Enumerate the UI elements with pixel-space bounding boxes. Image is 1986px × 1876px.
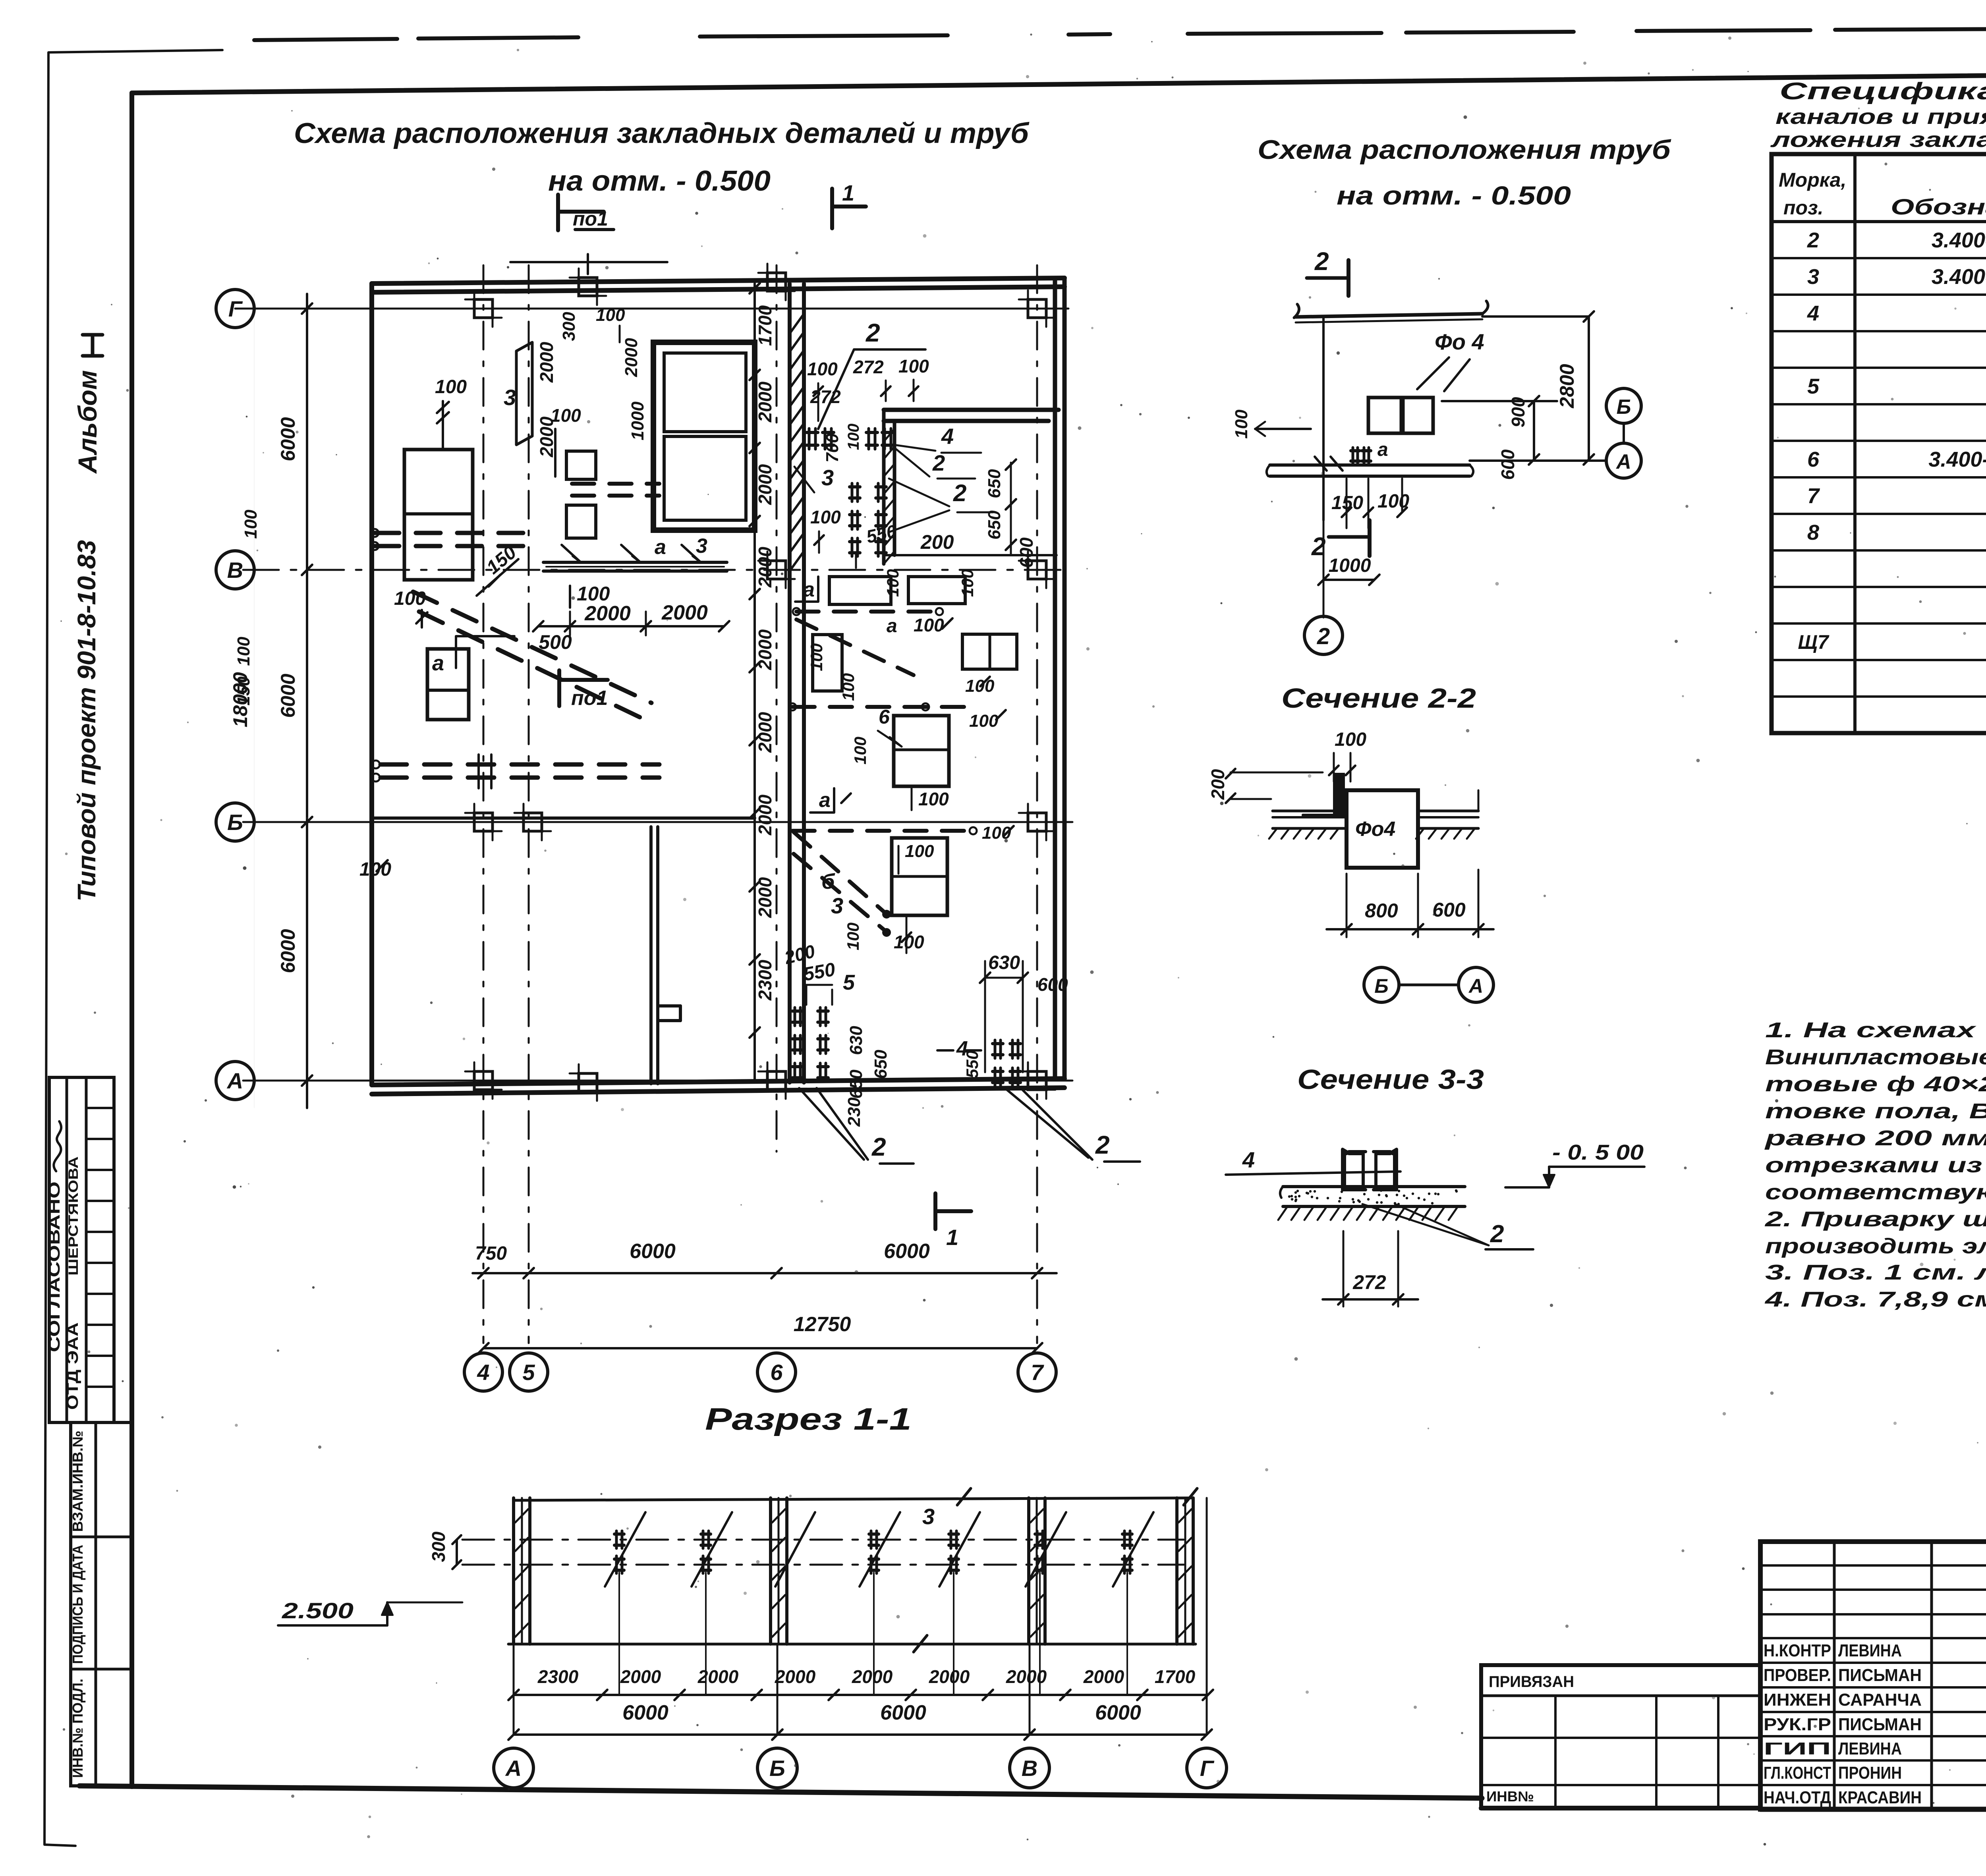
svg-text:100: 100 [845,424,862,450]
svg-text:2300: 2300 [537,1666,579,1687]
svg-text:2: 2 [1314,247,1329,276]
svg-text:6000: 6000 [884,1240,930,1263]
section 2-2 bubbles B A [1364,967,1399,1002]
svg-text:3: 3 [922,1504,935,1529]
axis bubble V [216,551,254,589]
section mark 1 bottom [933,1193,937,1229]
equipment rects row below axis V [829,577,891,604]
window double rectangle top middle [653,342,755,530]
bolt clusters bottom right [993,1042,1003,1045]
dashed pipe run below axis V [796,610,939,614]
svg-text:100: 100 [810,507,841,527]
razrez axis bubble V [1010,1748,1049,1788]
svg-text:Б: Б [769,1756,785,1781]
svg-text:соответствующего диаметра.: соответствующего диаметра. [1765,1180,1986,1204]
svg-text:6000: 6000 [630,1240,676,1263]
svg-text:Щ7: Щ7 [1798,631,1829,653]
section 3-3 slab stipple [1341,1191,1343,1193]
svg-text:2000: 2000 [775,1666,816,1687]
svg-text:3: 3 [1807,265,1819,289]
section mark 1 top [830,189,834,228]
svg-text:4: 4 [1807,301,1819,325]
svg-text:ИНВ.№ ПОДЛ.: ИНВ.№ ПОДЛ. [70,1679,86,1778]
svg-text:5: 5 [522,1360,535,1385]
svg-text:6000: 6000 [277,674,299,718]
plan interior wall vertical bottom-left room [649,827,653,1084]
svg-text:100: 100 [807,643,826,671]
svg-text:200: 200 [1207,769,1228,800]
svg-text:каналов и приямков в осях 6-7;: каналов и приямков в осях 6-7; В-Г и к с… [1775,105,1986,129]
svg-text:2000: 2000 [755,794,775,836]
spec table outer border [1772,154,1986,733]
svg-text:6000: 6000 [880,1701,926,1724]
svg-text:550: 550 [963,1050,981,1078]
plan horizontal axis line G [235,308,1068,310]
margin stamp table SOGLASOVANO [49,1077,114,1422]
svg-text:a: a [432,651,444,675]
plan horizontal axis line B [243,821,1072,823]
svg-text:Винипластовые ф 32 × 1.8, инд: Винипластовые ф 32 × 1.8, индексом „ Б” … [1765,1045,1986,1069]
svg-text:А: А [1615,450,1631,473]
plan top wall [372,278,1064,284]
svg-text:100: 100 [969,711,999,731]
plan vertical axis line 5 [528,265,530,1343]
svg-text:100: 100 [435,376,467,398]
svg-text:2800: 2800 [1556,364,1578,408]
pipe scheme bubble A [1606,443,1641,478]
svg-text:ПРОВЕР.: ПРОВЕР. [1764,1666,1831,1685]
svg-text:Г: Г [1200,1756,1215,1781]
razrez axis bubble B [757,1748,797,1788]
svg-text:Б: Б [227,810,243,835]
plan bottom axis bubble 4 [464,1353,502,1391]
svg-text:Б: Б [1617,396,1631,419]
arrows into diagonal pipes [882,910,891,919]
svg-text:1000: 1000 [628,401,647,440]
svg-text:ПРОНИН: ПРОНИН [1838,1763,1902,1783]
spec table header row line [1772,220,1986,223]
svg-text:272: 272 [1352,1271,1386,1293]
bolt chains bottom left of quadrant [792,1009,803,1013]
svg-text:600: 600 [1016,537,1037,568]
plan horizontal axis line V [243,569,1072,571]
svg-text:2000: 2000 [755,464,775,505]
svg-text:a: a [803,578,815,601]
margin signature squiggle [51,1121,66,1172]
svg-text:a: a [655,536,666,559]
svg-text:100: 100 [839,673,858,701]
svg-text:630: 630 [988,952,1020,973]
svg-text:2000: 2000 [620,1666,661,1687]
svg-text:2: 2 [932,450,945,475]
svg-text:КРАСАВИН: КРАСАВИН [1838,1788,1922,1807]
svg-text:650: 650 [871,1050,891,1079]
svg-text:630: 630 [846,1026,866,1055]
sheet top border main line [132,83,1160,93]
svg-text:800: 800 [1365,899,1398,922]
svg-text:Фо 4: Фо 4 [1435,329,1484,354]
svg-text:ПРИВЯЗАН: ПРИВЯЗАН [1489,1673,1574,1691]
pipe scheme vertical axis line [1322,318,1325,520]
section 2-2 floor right [1419,810,1478,813]
svg-text:на отм. - 0.500: на отм. - 0.500 [548,165,771,197]
equipment rect left mid [813,635,842,691]
razrez break marks [957,1488,971,1505]
svg-text:ГЛ.КОНСТ: ГЛ.КОНСТ [1764,1763,1831,1783]
equipment rect R4 [566,451,596,479]
svg-text:100: 100 [577,583,610,605]
svg-text:3: 3 [504,385,516,410]
equipment rectangle R1 with split [404,450,473,580]
title block outer box [1760,1542,1986,1809]
dashed link to bolt cluster [937,1049,981,1052]
section 2-2 floor left [1273,810,1347,813]
svg-text:САРАНЧА: САРАНЧА [1838,1690,1922,1710]
svg-text:Фо4: Фо4 [1355,818,1395,841]
svg-text:2000: 2000 [622,338,641,377]
svg-text:В: В [227,558,243,583]
pipe scheme dim 2800 vertical [1588,317,1590,459]
bolt group top pit left [807,431,818,434]
svg-text:3: 3 [831,893,843,918]
svg-text:6000: 6000 [277,929,299,973]
svg-text:6: 6 [1807,448,1820,471]
svg-text:100: 100 [898,356,929,376]
svg-text:3.400- 6/76: 3.400- 6/76 [1928,448,1986,471]
svg-text:600: 600 [1037,974,1068,995]
svg-text:ИНВ№: ИНВ№ [1486,1788,1534,1805]
section 3-3 channel profiles [1343,1149,1366,1190]
svg-text:100: 100 [1232,409,1251,439]
plan interior wall axis6 hatching [790,314,804,334]
plan interior wall axis6 [788,284,792,1083]
dashed pipe horizontal pair under R1 [375,531,528,535]
svg-text:6000: 6000 [277,417,299,461]
svg-text:100: 100 [914,615,944,635]
plan right wall [1053,278,1057,1079]
svg-text:3.400-6/76: 3.400-6/76 [1932,265,1986,289]
svg-text:А: А [226,1068,243,1093]
svg-text:отрезками из тонкостенных с: отрезками из тонкостенных стальных труб, [1765,1153,1986,1177]
left dimension chain 6000x3 [306,294,308,1108]
svg-text:2000: 2000 [697,1666,739,1687]
svg-text:Сечение 2-2: Сечение 2-2 [1281,683,1476,714]
svg-text:2. Приварку швеллеров к: 2. Приварку швеллеров к закладным деталя… [1765,1207,1986,1231]
svg-text:1000: 1000 [1329,555,1371,576]
dashed pipes from R4 [572,482,659,486]
svg-text:СОГЛАСОВАНО: СОГЛАСОВАНО [46,1181,63,1352]
svg-text:2: 2 [871,1133,886,1161]
svg-text:8: 8 [1807,521,1819,544]
svg-text:3.400-6/76: 3.400-6/76 [1932,228,1986,252]
pipe scheme line under boxes to A [1442,400,1557,402]
svg-text:100: 100 [1335,729,1366,750]
pipe scheme top beam [1294,304,1299,318]
razrez anchor plates with diagonals [614,1532,624,1536]
plan horizontal axis line A [243,1080,1072,1082]
svg-text:ПОДПИСЬ И ДАТА: ПОДПИСЬ И ДАТА [70,1545,86,1664]
svg-text:2300: 2300 [755,959,775,1001]
svg-text:650: 650 [985,469,1004,498]
svg-text:Разрез 1-1: Разрез 1-1 [705,1401,912,1436]
section 2-2 box F04 [1347,790,1418,868]
pipe scheme beam extension line to dim [1482,315,1589,318]
pipe scheme section mark 2 bottom [1368,520,1372,556]
svg-text:4: 4 [1242,1147,1255,1172]
svg-text:2000: 2000 [755,546,775,588]
svg-text:РУК.ГР: РУК.ГР [1764,1715,1831,1734]
plan interior wall along B left half [372,816,755,820]
svg-text:600: 600 [1497,449,1518,480]
plan interior dim strip axis6 left line [753,284,756,1083]
razrez top chord line [514,1498,1192,1500]
svg-text:1: 1 [842,180,854,205]
svg-text:товке пола, Возвышение труб: товке пола, Возвышение труб над чистым п… [1765,1099,1986,1123]
pipe scheme hash marks [1315,457,1327,471]
sheet top border dashed upper line [254,39,397,40]
section mark po1 mid plan [557,670,561,706]
svg-text:ИНЖЕН: ИНЖЕН [1764,1690,1831,1710]
svg-text:100: 100 [851,737,869,764]
svg-text:2000: 2000 [755,712,775,753]
plan column symbols [474,299,493,318]
pipe scheme floor band [1270,463,1470,467]
plan vertical axis line 4 [483,265,485,1343]
svg-text:равно 200 мм, выходы труб и: равно 200 мм, выходы труб из пола зашить [1764,1126,1986,1150]
svg-text:100: 100 [551,405,581,426]
svg-text:ЛЕВИНА: ЛЕВИНА [1838,1739,1902,1758]
svg-text:1700: 1700 [755,305,775,346]
svg-text:12750: 12750 [794,1313,851,1336]
vertical label Album I roman numeral [91,335,95,356]
spec table column lines [1853,154,1857,733]
pipe scheme equipment boxes [1368,398,1401,433]
svg-text:Н.КОНТР: Н.КОНТР [1764,1641,1831,1660]
section 3-3 soil hatch [1278,1207,1287,1220]
svg-text:200: 200 [920,531,954,553]
sheet bottom border line [79,1786,1482,1798]
svg-text:2000: 2000 [584,602,631,625]
razrez anchor diagonals at columns [775,1512,815,1586]
razrez axis bubble G [1187,1748,1227,1788]
svg-text:2: 2 [1317,623,1330,649]
svg-text:поз.: поз. [1783,197,1824,219]
svg-text:650: 650 [985,510,1004,540]
svg-text:272: 272 [810,386,841,407]
svg-text:2000: 2000 [852,1666,893,1687]
svg-text:500: 500 [539,631,572,653]
svg-text:ШЕРСТЯКОВА: ШЕРСТЯКОВА [66,1156,81,1276]
axis bubble A [216,1062,254,1100]
svg-text:2000: 2000 [661,601,708,624]
svg-text:Схема расположения закладных д: Схема расположения закладных деталей и т… [294,118,1030,149]
title block left grid columns [1833,1542,1836,1809]
svg-text:2000: 2000 [755,381,775,423]
svg-text:3: 3 [696,535,707,558]
svg-text:150: 150 [1331,492,1363,513]
bottom dimension chain row 750 6000 6000 [473,1272,1057,1274]
section 3-3 dim 272 [1343,1231,1345,1307]
dashed pipe horizontal pair lower left [381,762,659,767]
svg-text:Обозначение: Обозначение [1891,194,1986,219]
svg-text:Альбом: Альбом [73,370,102,474]
svg-text:7: 7 [1031,1360,1044,1385]
equipment rect below B [892,838,947,915]
svg-text:2000: 2000 [929,1666,970,1687]
svg-text:750: 750 [475,1243,507,1264]
svg-text:4. Поз. 7,8,9 см. лист 18: 4. Поз. 7,8,9 см. лист 18. [1765,1287,1986,1311]
svg-text:на отм. - 0.500: на отм. - 0.500 [1337,181,1571,210]
bolt group top pit right [866,431,877,434]
svg-text:300: 300 [559,312,579,341]
axis bubble B [216,803,254,841]
trench arrows [562,545,580,562]
section mark po1 top [556,195,560,230]
svg-text:100: 100 [807,359,838,379]
svg-text:100: 100 [241,510,261,539]
sheet left border line [129,93,134,1787]
svg-text:ПИСЬМАН: ПИСЬМАН [1838,1666,1922,1685]
svg-text:2: 2 [1095,1131,1110,1159]
svg-text:А: А [1468,975,1483,997]
svg-text:272: 272 [853,357,884,377]
svg-text:Типовой проект 901-8-10.83: Типовой проект 901-8-10.83 [72,540,101,901]
svg-text:1: 1 [946,1225,958,1250]
axis bubble G [216,290,254,328]
top wall dim extension above axis 5 [587,254,589,274]
plan bottom axis bubble 5 [510,1353,548,1391]
svg-text:А: А [505,1756,522,1781]
svg-text:по1: по1 [573,208,608,230]
svg-text:2: 2 [865,318,880,347]
svg-text:3. Поз. 1 см. лист 16.: 3. Поз. 1 см. лист 16. [1765,1260,1986,1284]
svg-text:100: 100 [918,789,949,809]
pilaster rect on axis5 [516,342,532,445]
pipe scheme circled 2 [1304,616,1343,654]
trench bar along axis V [543,561,727,564]
svg-text:производить электродами Э 42: производить электродами Э 42 ГОСТ 946Т-7… [1765,1234,1986,1258]
svg-text:Сечение 3-3: Сечение 3-3 [1297,1064,1484,1095]
svg-text:6000: 6000 [622,1701,668,1724]
svg-text:6: 6 [879,706,890,728]
svg-text:2: 2 [1490,1220,1504,1248]
svg-text:900: 900 [1508,397,1528,427]
svg-text:2000: 2000 [536,342,557,383]
svg-text:2000: 2000 [1006,1666,1047,1687]
svg-text:6000: 6000 [1095,1701,1141,1724]
svg-text:ЛЕВИНА: ЛЕВИНА [1838,1641,1902,1660]
pipe scheme floor line to A bubble [1470,459,1606,462]
svg-text:по1: по1 [571,687,608,710]
svg-text:300: 300 [428,1531,449,1562]
svg-text:100: 100 [905,841,934,861]
svg-text:товые ф 40×2. Трубы заложит: товые ф 40×2. Трубы заложить в бетонной … [1765,1072,1986,1096]
svg-text:ложения закладных деталей и тр: ложения закладных деталей и труб на отм.… [1770,128,1986,152]
section 3-3 floor slab [1283,1185,1465,1188]
plan left wall [369,284,374,1085]
svg-text:Морка,: Морка, [1779,169,1846,191]
svg-text:1. На схемах индексом „: 1. На схемах индексом „ а” обозначены тр… [1765,1018,1986,1042]
svg-text:2: 2 [1807,228,1819,252]
svg-text:100: 100 [844,923,862,950]
razrez dash-dot anchor lines [462,1539,1184,1541]
svg-text:2000: 2000 [1083,1666,1124,1687]
pipe scheme anchor bolts on floor [1351,449,1360,452]
dashed run below B axis [792,829,973,833]
svg-text:100: 100 [883,569,902,597]
svg-text:2: 2 [953,480,966,506]
svg-text:5: 5 [843,971,855,994]
plan bottom axis bubble 7 [1018,1353,1056,1391]
section 3-3 weld leader to 2 [1362,1204,1489,1245]
svg-text:- 0. 5 00: - 0. 5 00 [1552,1141,1644,1164]
svg-text:5: 5 [1807,374,1820,398]
diagonal dashed pipes to lower rects [796,620,914,675]
section 2-2 soil hatch [1269,828,1277,839]
equipment rect mid split [894,716,949,786]
svg-text:100: 100 [234,637,253,666]
razrez lower dim chain 2300 2000x7 1700 [514,1694,1207,1696]
dim row 500 2000 2000 under axis V [538,625,724,627]
dashed pipe diagonal pair from R1 [413,592,651,703]
svg-text:a: a [887,616,897,637]
svg-text:7: 7 [1807,484,1820,508]
svg-text:100: 100 [394,588,426,609]
section 2-2 riser pipe [1335,774,1343,816]
bolt chains in pit [850,485,860,488]
plan bottom axis bubble 6 [757,1353,796,1391]
svg-text:150: 150 [234,676,253,706]
svg-text:650: 650 [846,1069,866,1099]
pipe scheme bubble B [1606,388,1641,423]
section 2-2 right vertical ref line [1478,790,1480,811]
plan vertical axis line 7 [1036,265,1038,1343]
pipe scheme dims 150 100 [1346,479,1348,528]
plan pit room walls in axes 6-7 [884,408,1059,412]
svg-text:ОТД ЭАА: ОТД ЭАА [64,1322,81,1410]
plan bottom wall [372,1079,1064,1085]
svg-text:a: a [1377,439,1388,460]
svg-text:Г: Г [228,296,243,321]
razrez dim chain 6000x3 [514,1733,1207,1736]
svg-text:a: a [819,789,831,812]
svg-text:В: В [1022,1756,1037,1781]
svg-text:Спецификация к схемам распо: Спецификация к схемам расположения [1779,78,1986,104]
svg-text:ГИП: ГИП [1764,1739,1831,1758]
privyazan box [1481,1665,1760,1808]
equipment pair right mid [962,634,1017,669]
svg-text:4: 4 [941,424,954,449]
svg-text:4: 4 [477,1360,489,1385]
sheet outer thin margin line left [44,50,222,1846]
left overall dimension 18000 [254,294,255,1108]
razrez vertical extension lines [513,1644,515,1735]
svg-text:ПИСЬМАН: ПИСЬМАН [1838,1715,1922,1734]
spec table row lines [1772,257,1986,259]
svg-text:100: 100 [1377,491,1409,512]
svg-text:1700: 1700 [1155,1666,1196,1687]
section 2-2 dim lines 800 600 [1346,874,1348,937]
svg-text:Схема расположения труб: Схема расположения труб [1258,135,1671,165]
equipment rectangle R2 with split [427,649,469,720]
equipment rect R5 [566,505,596,538]
svg-text:ВЗАМ.ИНВ.№: ВЗАМ.ИНВ.№ [70,1431,86,1532]
svg-text:Б: Б [1374,975,1388,997]
svg-text:НАЧ.ОТД: НАЧ.ОТД [1764,1788,1831,1807]
razrez axis bubble A [494,1748,533,1788]
svg-text:600: 600 [1432,899,1466,921]
svg-text:6: 6 [770,1360,783,1385]
